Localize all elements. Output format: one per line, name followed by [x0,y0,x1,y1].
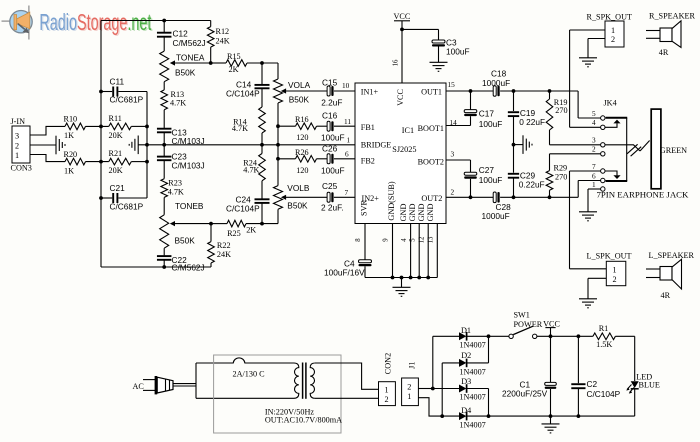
capacitor C15 [327,86,333,96]
svg-text:1N4007: 1N4007 [459,340,485,349]
wire [261,133,263,145]
svg-text:1: 1 [347,136,351,145]
wire jack pin7 [570,170,601,172]
svg-text:1: 1 [407,392,411,401]
svg-text:B50K: B50K [175,68,196,78]
svg-text:4.7K: 4.7K [168,187,184,196]
wire [278,125,296,127]
potentiometer TONEA [160,51,169,82]
junction [487,334,491,338]
svg-text:TONEA: TONEA [176,52,205,62]
wire jack pin4 [570,126,601,128]
svg-text:C21: C21 [110,183,126,193]
svg-text:C15: C15 [322,78,338,88]
svg-text:4R: 4R [659,48,669,57]
wire [131,125,147,127]
svg-text:R29: R29 [554,164,568,173]
svg-text:1N4007: 1N4007 [459,392,485,401]
svg-text:OUT:AC10.7V/800mA: OUT:AC10.7V/800mA [265,416,342,425]
wire pin15 OUT1 [446,90,471,92]
wire bottom tone rail [101,266,211,268]
wire secondary bottom to CON2 [315,397,379,399]
svg-text:C/M562J: C/M562J [173,38,206,48]
svg-text:2.2uF: 2.2uF [321,98,342,108]
wire [334,90,355,92]
junction [409,276,413,280]
wire cathode join [488,336,490,363]
junction [549,334,553,338]
svg-text:3: 3 [592,136,596,145]
junction [469,195,473,199]
svg-text:C/M103J: C/M103J [172,161,205,171]
resistor R10 [65,123,86,130]
svg-text:2 2uF.: 2 2uF. [321,202,344,212]
svg-text:2: 2 [15,141,19,150]
svg-text:FB1: FB1 [361,123,375,132]
diode D1 1N4007 [459,332,467,341]
capacitor C21 [113,193,117,203]
svg-text:GND: GND [417,204,426,222]
wire [334,158,355,160]
VOLB wiper arrow [281,195,286,200]
svg-text:C/C104P: C/C104P [226,88,260,98]
JK4 pin 7 [601,169,605,173]
svg-text:100uF: 100uF [479,175,503,185]
junction [512,143,516,147]
junction [487,414,491,418]
capacitor C28 [493,192,499,203]
svg-text:1K: 1K [64,131,74,140]
svg-text:20K: 20K [109,166,123,175]
R_SPEAKER symbol [646,21,681,48]
svg-text:3: 3 [451,150,455,159]
wire [514,144,523,146]
svg-text:VOLB: VOLB [287,183,310,193]
capacitor C16 [327,121,333,131]
svg-text:C16: C16 [322,111,338,121]
svg-text:BLUE: BLUE [639,380,660,389]
wire [587,189,589,212]
wire [86,125,109,127]
L_SPEAKER symbol [646,259,682,289]
junction [260,222,264,226]
resistor R25 [227,220,246,227]
svg-text:R25: R25 [227,229,241,238]
svg-text:6: 6 [345,150,349,159]
wire CON3 pin3 to R10 [30,126,65,135]
svg-text:7: 7 [592,162,596,171]
junction [512,195,516,199]
capacitor C12 [157,33,172,37]
svg-text:AC: AC [133,382,145,391]
capacitor C11 [113,87,117,97]
svg-text:24K: 24K [217,250,231,259]
connector J1 [402,378,419,406]
svg-text:7PIN EARPHONE JACK: 7PIN EARPHONE JACK [597,190,690,200]
wire [210,263,212,267]
resistor R11 [109,123,132,130]
svg-text:4.7K: 4.7K [170,98,186,107]
resistor R26 [296,156,317,163]
connector R_SPK_OUT [605,21,624,47]
wire [442,362,459,364]
wire top feedback rail [101,20,211,22]
svg-text:1: 1 [592,180,596,189]
junction [548,89,552,93]
JK4 pin 4 [601,125,605,129]
svg-text:BOOT1: BOOT1 [418,124,444,133]
svg-text:1K: 1K [64,167,74,176]
VOLA wiper arrow [281,88,286,93]
junction [276,124,280,128]
svg-text:J1: J1 [408,362,417,369]
wire R_SPK pin1 [570,29,605,31]
wire [615,335,634,337]
JK4 tip contact bar lower [606,180,628,182]
svg-text:C2: C2 [587,379,598,389]
wire [634,389,636,416]
wire [587,278,589,298]
op-amp IC1 SJ2025 body [355,83,446,224]
wire [317,125,328,127]
svg-text:JK4: JK4 [604,99,617,108]
diode D3 1N4007 [459,384,467,393]
svg-text:15: 15 [448,80,456,89]
junction [209,222,213,226]
wire [549,91,551,99]
svg-text:R_SPK_OUT: R_SPK_OUT [587,12,633,21]
potentiometer VOLA [274,79,283,103]
wire pin8 SVR stub [364,224,366,260]
wire [513,91,515,111]
logo crosshair lines [2,6,29,40]
svg-text:9: 9 [383,238,390,242]
wire pin13 stub [436,224,438,278]
wire pot bus [277,103,279,186]
wire [163,110,165,128]
svg-text:TONEB: TONEB [175,201,204,211]
junction [99,196,103,200]
ground output mid [523,135,532,154]
resistor R16 [296,123,317,130]
wire OUT1 to jack [500,90,578,92]
svg-text:D2: D2 [461,351,471,360]
svg-text:100uF: 100uF [321,133,345,143]
svg-text:D3: D3 [461,377,471,386]
wire [433,388,459,390]
wire J1 pin2 [418,388,432,390]
JK4 pin 6 [601,178,605,182]
wire ground rail [365,277,437,279]
wire TONEB wiper [175,223,212,225]
svg-text:R_SPEAKER: R_SPEAKER [649,12,695,21]
wire [334,196,355,198]
resistor R15 [226,60,247,67]
svg-text:R20: R20 [64,150,78,159]
svg-text:100uF/16V: 100uF/16V [324,268,365,278]
ground C3 [430,62,448,71]
capacitor C13 [157,129,172,133]
wire [163,21,165,33]
wire [634,336,636,381]
resistor R13 [161,90,168,110]
svg-text:100uF: 100uF [321,165,345,175]
wire L_SPK pin2 [588,277,606,279]
wire left vertical bus [100,21,102,268]
svg-text:C11: C11 [110,77,125,87]
wire [278,158,296,160]
svg-text:VOLA: VOLA [288,80,311,90]
junction [431,387,435,391]
junction [400,28,404,32]
svg-text:C/M103J: C/M103J [172,136,205,146]
wire VOLA wiper [285,90,327,92]
svg-text:L_SPEAKER: L_SPEAKER [649,251,695,260]
wire [577,181,579,198]
diode D2 1N4007 [459,359,467,368]
wire [163,37,165,51]
svg-text:BOOT2: BOOT2 [418,157,444,166]
resistor R22 [208,242,215,263]
svg-text:0.22uF: 0.22uF [519,180,545,190]
svg-text:20K: 20K [109,131,123,140]
svg-text:CON2: CON2 [384,353,393,374]
svg-text:2K: 2K [246,225,256,234]
wire [210,47,212,63]
svg-text:3: 3 [15,131,19,140]
svg-text:J-IN: J-IN [11,117,26,126]
connector L_SPK_OUT [606,261,626,285]
svg-text:24K: 24K [216,37,230,46]
svg-text:16: 16 [393,59,400,66]
power module box [214,355,341,433]
svg-text:120: 120 [296,133,308,142]
svg-text:1: 1 [613,266,617,275]
wire [211,62,226,64]
wire [247,62,278,64]
svg-text:C/C104P: C/C104P [226,204,260,214]
wire [277,63,279,79]
wire primary bottom [196,397,294,399]
wire pin16 stub [401,29,403,83]
wire jack pin1 [588,188,601,190]
resistor R19 [546,99,553,130]
capacitor C3 [432,40,445,47]
LED blue [626,381,638,393]
svg-text:OUT1: OUT1 [421,88,442,97]
svg-text:4: 4 [401,238,408,242]
capacitor C18 [493,86,499,97]
junction [548,195,552,199]
junction [99,160,103,164]
wire pin3 BOOT2 [446,159,471,161]
wire [470,160,472,172]
svg-text:R15: R15 [227,52,241,61]
svg-text:R11: R11 [109,114,122,123]
junction [577,414,581,418]
svg-text:R21: R21 [109,149,123,158]
switch SW1 circles [509,334,513,338]
connector CON2 [379,382,396,406]
svg-text:2K: 2K [229,65,239,74]
junction [400,276,404,280]
wire [210,21,212,27]
svg-text:10: 10 [342,81,350,90]
svg-text:GND: GND [426,204,435,222]
resistor R23 [161,179,168,198]
svg-text:GND(SUB): GND(SUB) [387,181,396,220]
resistor R29 [546,171,553,191]
wire [513,178,515,198]
wire [364,266,366,277]
wire [401,278,403,288]
JK4 contact arrow lower [605,171,621,179]
junction [391,276,395,280]
wire [470,179,472,198]
svg-text:B50K: B50K [289,95,310,105]
capacitor C2 [571,384,585,388]
wire [550,336,552,382]
JK4 pin 1 [601,187,605,191]
wire bridge mid rail [138,144,355,146]
wire [277,209,279,223]
svg-text:2A/130 C: 2A/130 C [233,369,266,378]
svg-text:R12: R12 [216,27,230,36]
junction [99,90,103,94]
wire [467,388,489,390]
wire [549,190,551,197]
svg-text:2: 2 [407,382,411,391]
wire [433,335,459,337]
capacitor C1 [545,382,557,389]
ground R_SPK [579,58,597,67]
junction [417,276,421,280]
transformer T1 secondary [310,363,315,398]
svg-text:120: 120 [296,166,308,175]
wire [488,389,490,417]
svg-text:C25: C25 [322,181,338,191]
svg-text:VCC: VCC [394,12,411,21]
svg-text:C26: C26 [322,143,338,153]
wire [470,116,472,125]
svg-text:R10: R10 [64,115,78,124]
junction [162,143,166,147]
junction [276,157,280,161]
wire L_SPK pin1 [570,268,607,270]
svg-text:CON3: CON3 [11,164,32,173]
svg-text:R16: R16 [295,115,309,124]
capacitor C17 [464,110,477,117]
potentiometer TONEB [160,215,169,248]
JK4 pin 2 [601,152,605,156]
wire [131,161,147,163]
svg-text:5: 5 [592,109,596,118]
svg-text:SVR: SVR [360,200,369,216]
svg-text:100uF: 100uF [479,119,503,129]
junction [162,19,166,23]
connector CON3 J-IN [12,126,30,163]
svg-text:B50K: B50K [175,236,196,246]
capacitor C23 [157,157,172,161]
wire [163,82,165,90]
wire CON3 pin2 to ground [30,144,56,146]
svg-text:C27: C27 [479,165,495,175]
svg-text:1.5K: 1.5K [596,340,612,349]
wire [261,203,263,224]
capacitor C25 [327,192,333,202]
wire [549,154,551,171]
svg-text:8: 8 [355,238,362,242]
wire [513,116,515,173]
JK4 switch break symbol [627,141,650,157]
fuse 2A/130C and primary wire [196,358,294,363]
svg-text:RadioStorage.net: RadioStorage.net [39,11,151,36]
wire to jack pin3 [550,144,601,146]
wire [118,197,147,199]
svg-text:GND: GND [408,204,417,222]
svg-text:4R: 4R [661,291,671,300]
svg-text:2200uF/25V: 2200uF/25V [502,388,548,398]
svg-text:POWER: POWER [514,320,543,329]
JK4 jack body [651,109,661,189]
wire pin2 OUT2 [446,196,471,198]
JK4 contact arrow upper [605,120,621,128]
wire [211,223,227,225]
svg-text:SW1: SW1 [514,310,530,319]
junction [260,143,264,147]
VCC power symbol [394,21,410,30]
svg-text:270: 270 [555,106,567,115]
resistor R14 [259,107,266,133]
ground input left [56,136,65,155]
wire [261,181,263,199]
junction [99,125,103,129]
wire [210,224,212,242]
wire [438,29,440,40]
junction [209,61,213,65]
wire OUT2 [471,196,494,198]
svg-text:R1: R1 [599,324,609,333]
VCC power symbol [545,328,555,337]
transformer T1 core [303,363,306,399]
JK4 contact link vertical [626,118,628,181]
capacitor C24 [255,199,270,203]
svg-text:VCC: VCC [543,320,560,329]
wire jack pin7 to L_SPK [569,171,571,269]
svg-text:100uF: 100uF [446,47,470,57]
wire jack pin2 [550,153,601,155]
ground jack [579,212,597,221]
TONEA wiper arrow [170,60,175,65]
wire [101,91,112,93]
wire [587,39,589,58]
JK4 pin 5 [601,116,605,120]
capacitor C26 [327,154,333,164]
wire [577,388,579,416]
potentiometer VOLB [274,186,283,210]
capacitor C22 [157,256,172,260]
svg-text:B50K: B50K [287,200,308,210]
wire [438,47,440,63]
svg-text:C/C681P: C/C681P [110,202,144,212]
junction [145,143,149,147]
wire [467,362,489,364]
capacitor C14 [255,85,270,88]
svg-text:270: 270 [555,173,567,182]
junction [145,160,149,164]
wire OUT1 drop [577,91,579,118]
svg-text:R23: R23 [168,178,182,187]
